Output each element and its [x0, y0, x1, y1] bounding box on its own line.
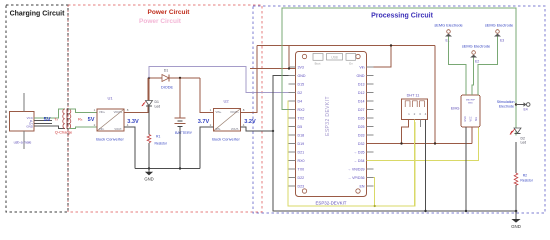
svg-text:BATTERY: BATTERY [175, 131, 193, 135]
label sEMG Electrode E2 [462, 44, 490, 49]
label 5V charging [44, 117, 51, 123]
wire rail down to sensor vcc bus [434, 46, 436, 144]
ESP32 module U3 [296, 52, 367, 197]
svg-text:R1: R1 [156, 135, 160, 139]
svg-text:D12: D12 [358, 91, 365, 95]
label D1 diode [164, 69, 169, 73]
ESP32 right pin labels [347, 65, 365, 188]
wire U2 VOUT+ 3.3V riser [241, 46, 258, 113]
wire usb GND to Tx coil [34, 126, 65, 128]
electrode E1 [445, 30, 452, 37]
svg-text:Boot: Boot [315, 62, 321, 66]
node EMG ground join [465, 210, 467, 212]
svg-text:VOUT+: VOUT+ [230, 110, 239, 114]
wire U2 VOUT- to processing ground [241, 127, 274, 131]
wire DHT pin2 data yellow [414, 120, 416, 207]
EMG sensor module U5 [461, 95, 480, 127]
node battery rail left [148, 77, 150, 79]
svg-text:En: En [349, 62, 353, 66]
svg-text:D26: D26 [358, 116, 365, 120]
wire ESP32 D32 brown sensor vcc bus [367, 143, 473, 145]
svg-text:VIN+: VIN+ [99, 110, 105, 114]
title Power Circuit [148, 9, 191, 16]
svg-text:ESP32 DEVKIT: ESP32 DEVKIT [325, 96, 331, 136]
buck converter U2 [210, 108, 245, 131]
svg-text:GND: GND [144, 177, 153, 182]
ESP32 left pin stubs [289, 67, 296, 186]
svg-text:D23: D23 [298, 184, 305, 188]
label D2 led [521, 136, 527, 144]
svg-text:D33: D33 [358, 133, 365, 137]
svg-text:D22: D22 [298, 176, 305, 180]
wire E2 to EMG [472, 58, 474, 96]
node vcc bus DHT join [400, 142, 402, 144]
resistor R1 [147, 135, 151, 143]
wire U1 VOUT+ to power rail [124, 78, 148, 112]
wire DHT pin3 stub [420, 120, 422, 128]
label E4 [524, 107, 528, 111]
node processing ground [515, 210, 518, 213]
wire vcc bus to DHT pin1 [402, 120, 409, 144]
svg-text:D1: D1 [164, 69, 169, 73]
svg-text:D19: D19 [298, 142, 305, 146]
svg-text:SIG: SIG [475, 117, 478, 121]
svg-text:END: END [468, 103, 473, 105]
node R1 ground [148, 167, 150, 169]
wire DHT pin4 to ground bus [425, 120, 427, 212]
ground power GND [144, 169, 153, 182]
svg-text:U2: U2 [223, 99, 229, 104]
wire Rx coil to U1 VIN- [69, 127, 97, 129]
label EMG [451, 107, 460, 111]
svg-text:Resistor: Resistor [520, 178, 533, 182]
label R2 [523, 174, 527, 178]
battery BT1 [175, 118, 186, 126]
node Vin rail junction [390, 44, 392, 46]
svg-text:RX2: RX2 [298, 108, 305, 112]
wire ESP32 GND loop left-bottom [273, 76, 516, 212]
svg-text:D13: D13 [358, 82, 365, 86]
charging circuit boundary box [6, 5, 68, 212]
svg-text:D14: D14 [358, 99, 365, 103]
svg-text:D18: D18 [298, 133, 305, 137]
processing circuit boundary box [253, 6, 545, 213]
svg-text:D15: D15 [298, 82, 305, 86]
svg-text:Resistor: Resistor [155, 141, 168, 145]
svg-text:VCC: VCC [470, 116, 473, 121]
svg-text:DIODE: DIODE [161, 86, 173, 90]
label Buck Converter U1 [96, 137, 124, 142]
svg-text:→ D35: → D35 [353, 150, 364, 154]
node stimulation branch [515, 103, 517, 105]
svg-text:Power Circuit: Power Circuit [139, 18, 182, 25]
node yellow bus VP join [374, 205, 376, 207]
label D1 led [155, 100, 161, 108]
wire U2 VIN- to ground bus [200, 127, 214, 169]
svg-text:→ D34: → D34 [353, 159, 364, 163]
svg-text:3V3: 3V3 [298, 65, 304, 69]
wire Rx coil to U1 VIN+ [69, 109, 97, 112]
svg-text:D5: D5 [298, 125, 303, 129]
label R1 [156, 135, 160, 139]
svg-text:D2: D2 [298, 91, 303, 95]
svg-text:R2: R2 [523, 174, 527, 178]
power ground bus wire [135, 168, 200, 170]
wire usb D+ stub [34, 122, 52, 124]
label DHT 11 [407, 93, 420, 97]
wire EMG GND to ground bus [465, 127, 467, 211]
label E2 [475, 60, 479, 64]
electrode E4 stimulation [516, 102, 530, 107]
svg-text:VIN-: VIN- [99, 127, 104, 131]
svg-text:Power Circuit: Power Circuit [148, 9, 191, 16]
diode D1 [162, 75, 169, 82]
label 3.7V [198, 119, 210, 125]
svg-text:sEMG Electrode: sEMG Electrode [434, 23, 462, 28]
ground processing GND [511, 211, 521, 229]
svg-text:Charging Circuit: Charging Circuit [10, 11, 66, 18]
node battery rail [179, 77, 181, 79]
3.3V rail wire processing [257, 45, 435, 47]
node 3V3 junction [288, 67, 290, 69]
wire yellow D4 loop bottom [288, 101, 415, 206]
svg-text:Processing Circuit: Processing Circuit [371, 12, 434, 19]
title Charging Circuit [10, 11, 66, 18]
label Tx [54, 117, 58, 122]
label 5V power [88, 117, 95, 123]
svg-text:E2: E2 [475, 60, 479, 64]
wire battery bottom to ground bus [179, 126, 181, 168]
node battery ground [179, 167, 181, 169]
svg-text:Vin: Vin [359, 65, 364, 69]
wire R1 to ground bus [148, 143, 150, 169]
svg-text:GND: GND [464, 116, 467, 122]
svg-text:D21: D21 [298, 150, 305, 154]
label BATTERY [175, 131, 193, 135]
label usb-a male [14, 141, 32, 145]
wire led D1 to R1 [148, 106, 150, 135]
wire green RX2 loop top [282, 8, 516, 135]
svg-text:3.2V: 3.2V [244, 119, 256, 125]
svg-text:Rx: Rx [78, 117, 83, 122]
svg-text:VOUT-: VOUT- [114, 127, 122, 131]
svg-text:RX0: RX0 [298, 159, 305, 163]
svg-text:Q-Charge: Q-Charge [55, 129, 73, 134]
svg-text:VIN-: VIN- [216, 127, 221, 131]
svg-text:U1: U1 [107, 96, 113, 101]
label sEMG Electrode E3 [485, 23, 513, 28]
electrode E2 [470, 51, 477, 58]
wire rail to ESP32 3V3 [250, 46, 296, 69]
svg-text:D1: D1 [155, 100, 159, 104]
svg-text:Stimulation: Stimulation [497, 100, 515, 104]
wire usb D- stub [34, 120, 52, 122]
svg-text:D4: D4 [298, 99, 303, 103]
label Rx [78, 117, 83, 122]
label Resistor R2 [520, 178, 533, 182]
DHT11 sensor U4 [402, 99, 428, 120]
svg-text:3.7V: 3.7V [198, 119, 210, 125]
svg-text:TX2: TX2 [298, 116, 305, 120]
power circuit boundary box [68, 5, 262, 212]
svg-text:DHT 11: DHT 11 [407, 93, 420, 97]
led D1 [142, 101, 153, 107]
wire U1 VOUT- to ground bus [124, 127, 135, 169]
svg-text:E1: E1 [446, 39, 450, 43]
label U1 [107, 96, 113, 101]
label ESP32-DEVKIT [316, 201, 347, 206]
wire rail to U2 VIN+ [200, 78, 214, 112]
usb connector J1 [10, 93, 35, 149]
svg-text:VOUT-: VOUT- [231, 127, 239, 131]
wire usb VCC to Tx coil (5V) [34, 109, 65, 118]
svg-text:GND: GND [26, 125, 34, 129]
wire battery top [179, 78, 181, 118]
svg-text:EN: EN [360, 184, 365, 188]
svg-text:Tx: Tx [54, 117, 58, 122]
label Resistor R1 [155, 141, 168, 145]
svg-text:usb-a male: usb-a male [14, 141, 32, 145]
svg-text:sEMG Electrode: sEMG Electrode [485, 23, 513, 28]
svg-text:GND: GND [298, 74, 306, 78]
svg-text:3.3V: 3.3V [127, 119, 139, 125]
label 3.2V U2 [244, 119, 256, 125]
svg-text:MID REF: MID REF [466, 100, 476, 102]
node DHT ground join [424, 210, 426, 212]
svg-text:Led: Led [155, 105, 161, 109]
buck converter U1 [94, 108, 129, 131]
svg-text:E3: E3 [500, 39, 504, 43]
wire led D2 to R2 [515, 142, 517, 173]
wire EMG VCC to vcc bus [471, 127, 473, 144]
svg-text:GND: GND [357, 74, 365, 78]
wire rail to ESP32 Vin [367, 46, 392, 68]
wire E3 to EMG [478, 37, 498, 96]
svg-text:GND: GND [511, 224, 521, 229]
svg-text:→ VN/D39: → VN/D39 [347, 167, 364, 171]
wire rail to led D1 [148, 78, 150, 101]
ESP32 left pin labels [298, 65, 306, 188]
svg-text:VOUT+: VOUT+ [114, 110, 123, 114]
svg-text:Buck Converter: Buck Converter [96, 137, 124, 142]
svg-text:VIN+: VIN+ [216, 110, 222, 114]
svg-text:Electrode: Electrode [499, 105, 514, 109]
label E3 [500, 39, 504, 43]
svg-text:ESP32-DEVKIT: ESP32-DEVKIT [316, 201, 347, 206]
label E1 [446, 39, 450, 43]
node vcc bus rail join [434, 142, 436, 144]
label sEMG Electrode E1 [434, 23, 462, 28]
label Stimulation Electrode [497, 100, 515, 109]
wire yellow D34 to EMG SIG [367, 127, 479, 161]
ESP32 right pin stubs [367, 67, 374, 186]
node U2 ground join [272, 130, 274, 132]
svg-text:EMG: EMG [451, 107, 460, 111]
wire R2 to ground bus [515, 185, 517, 211]
label 3.3V U1 [127, 119, 139, 125]
label Buck Converter U2 [212, 137, 240, 142]
svg-text:5V: 5V [44, 117, 51, 123]
label DIODE [161, 86, 173, 90]
wire E1 to EMG [449, 37, 467, 96]
wire VP/D36 to yellow bus [367, 178, 375, 207]
title Power Circuit ghost [139, 18, 182, 25]
svg-text:USB: USB [331, 56, 338, 60]
svg-text:Led: Led [521, 140, 527, 144]
svg-text:D27: D27 [358, 108, 365, 112]
electrode E3 [494, 30, 501, 37]
svg-text:sEMG Electrode: sEMG Electrode [462, 44, 490, 49]
transformer T1 Q-Charge coils [63, 109, 71, 130]
svg-text:Buck Converter: Buck Converter [212, 137, 240, 142]
svg-text:D32: D32 [358, 142, 365, 146]
svg-text:E4: E4 [524, 107, 528, 111]
title Processing Circuit [371, 12, 434, 19]
svg-text:→ VP/D36: → VP/D36 [348, 176, 365, 180]
svg-text:TX0: TX0 [298, 167, 305, 171]
label U2 [223, 99, 229, 104]
label Q-Charge [55, 129, 73, 134]
svg-text:D25: D25 [358, 125, 365, 129]
power rail wire 3.7V [148, 77, 200, 79]
led D2 [510, 128, 521, 135]
wire purple battery sense to ESP32 D2 [149, 67, 296, 93]
resistor R2 [514, 173, 518, 185]
